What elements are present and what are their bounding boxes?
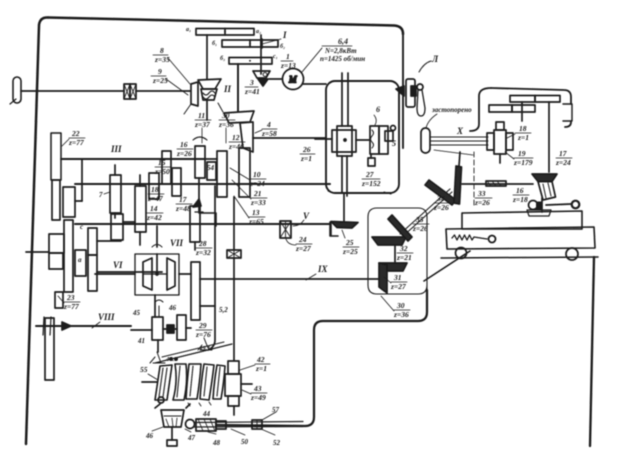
wire: vertical pulley shaft (237, 64, 239, 111)
rollers and bed line (441, 257, 598, 258)
svg-text:б₁: б₁ (212, 40, 217, 47)
svg-text:z=1: z=1 (255, 364, 267, 373)
bed right edge (590, 257, 594, 446)
labels (396, 244, 412, 262)
cone variator pair (191, 82, 198, 106)
svg-text:z=33: z=33 (250, 198, 266, 207)
svg-text:7: 7 (99, 191, 103, 199)
labels 34 35 (433, 194, 449, 212)
svg-text:z=76: z=76 (195, 330, 211, 339)
svg-text:z=26: z=26 (176, 149, 192, 158)
svg-text:III: III (110, 144, 122, 154)
svg-text:II: II (223, 84, 232, 94)
svg-text:18: 18 (519, 124, 527, 133)
svg-text:15: 15 (158, 158, 166, 167)
svg-text:16: 16 (516, 186, 524, 195)
svg-text:z=179: z=179 (513, 158, 533, 167)
motor M (283, 69, 304, 90)
svg-text:48: 48 (212, 439, 221, 447)
svg-text:26: 26 (302, 145, 311, 154)
bevel 32 bar (372, 237, 406, 245)
pulley bar b (222, 40, 278, 47)
svg-text:z=77: z=77 (63, 302, 79, 311)
lever over drum (155, 344, 232, 363)
label 9 z=25 (152, 67, 168, 85)
gear after diff (191, 262, 200, 320)
bevel 25 (330, 222, 338, 236)
worm block table (487, 133, 494, 150)
bottom labels (152, 427, 275, 435)
svg-text:z=152: z=152 (361, 179, 381, 188)
label 26 z=1 (300, 145, 312, 163)
svg-text:6: 6 (376, 105, 380, 114)
svg-text:z=25: z=25 (342, 247, 358, 256)
svg-text:10: 10 (253, 170, 261, 179)
svg-text:N=2,8кВт: N=2,8кВт (324, 47, 357, 55)
svg-text:17: 17 (559, 149, 567, 158)
label 24 z=27 (295, 235, 311, 253)
bevel pair table drive (532, 174, 557, 182)
svg-text:6,4: 6,4 (338, 37, 348, 46)
pulley bars right (510, 96, 535, 103)
svg-text:z=13: z=13 (280, 61, 296, 70)
wire: link to shaft V (199, 213, 216, 226)
svg-text:z=41: z=41 (244, 87, 260, 96)
svg-text:a₁: a₁ (186, 27, 191, 33)
svg-text:22: 22 (71, 129, 80, 138)
svg-text:34: 34 (436, 194, 445, 203)
svg-text:46: 46 (145, 432, 154, 440)
label 22 z=77 (68, 129, 84, 147)
svg-text:43: 43 (253, 384, 262, 393)
wire shaft III (61, 158, 204, 160)
svg-text:застопорено: застопорено (431, 106, 472, 114)
svg-text:57: 57 (272, 406, 280, 414)
label 19 z=179 (513, 149, 533, 167)
svg-text:z=26: z=26 (412, 224, 428, 233)
L-path linkage to cam (216, 290, 427, 426)
svg-text:21: 21 (253, 189, 262, 198)
shaft X double line (430, 137, 488, 145)
svg-text:z=46: z=46 (228, 142, 244, 151)
svg-text:z=48: z=48 (175, 204, 191, 213)
svg-text:28: 28 (198, 239, 207, 248)
svg-text:19: 19 (518, 149, 526, 158)
wire shaft IV (75, 183, 330, 185)
svg-text:47: 47 (187, 434, 196, 442)
svg-text:IX: IX (317, 264, 329, 274)
ratchet 24 on shaft V (280, 221, 291, 238)
svg-text:a: a (78, 256, 82, 264)
friction clutch 5 (370, 126, 379, 154)
wire (136, 90, 190, 92)
svg-text:5,2: 5,2 (219, 306, 228, 314)
svg-text:44: 44 (202, 410, 211, 418)
gears crossing shaft V (190, 206, 200, 242)
svg-text:VII: VII (170, 238, 184, 248)
shaft VI (97, 271, 162, 273)
svg-text:z=27: z=27 (390, 282, 406, 291)
wire: differential center shaft (156, 254, 158, 274)
svg-text:V: V (303, 211, 310, 221)
bevel 31 (379, 263, 407, 271)
wire: vertical to variator (206, 35, 208, 79)
pulley bar a1-a2 (196, 29, 254, 36)
label 25 z=25 (342, 238, 358, 256)
upper gearbox interior: vertical hob shaft (342, 73, 348, 126)
frame: left border (26, 17, 48, 444)
svg-text:31: 31 (393, 273, 402, 282)
shaft III gear 22 (51, 133, 61, 180)
svg-text:35: 35 (415, 215, 424, 224)
upper bevel chevron (425, 180, 456, 205)
svg-text:c₁: c₁ (273, 54, 278, 60)
label 36 z=18 (512, 186, 528, 204)
bevel cup bottom (161, 410, 184, 427)
label 18 z=1 (517, 124, 529, 142)
label 1 z=13 (280, 52, 296, 70)
svg-text:49.1: 49.1 (198, 345, 210, 352)
dash axis (473, 152, 475, 208)
svg-text:z=49: z=49 (250, 393, 266, 402)
table main (446, 227, 595, 249)
svg-text:55: 55 (140, 365, 148, 374)
svg-text:1: 1 (286, 52, 290, 61)
label 23 z=77 (63, 293, 79, 311)
svg-text:z=24: z=24 (555, 158, 571, 167)
wire: gearbox to bevel 25 (343, 193, 345, 222)
svg-text:18: 18 (151, 185, 159, 194)
svg-text:VI: VI (113, 260, 123, 270)
svg-text:z=25: z=25 (152, 76, 168, 85)
table upper slide (462, 211, 582, 229)
vertical feed shafts (208, 186, 215, 350)
svg-text:9: 9 (158, 67, 162, 76)
svg-text:n=1425 об/мин: n=1425 об/мин (320, 55, 365, 63)
svg-text:24: 24 (298, 235, 307, 244)
svg-text:M: M (288, 75, 297, 85)
label 27 z=152 (361, 170, 381, 188)
wire shaft IX (200, 278, 379, 280)
svg-text:z=1: z=1 (517, 133, 529, 142)
svg-text:z=35: z=35 (154, 55, 170, 64)
wire shaft V (75, 223, 330, 225)
svg-text:23: 23 (66, 293, 75, 302)
shaft VIII (36, 325, 131, 327)
svg-text:z=32: z=32 (195, 248, 211, 257)
svg-text:52: 52 (273, 439, 281, 447)
label 33 z=26 (474, 189, 490, 207)
svg-text:30: 30 (396, 301, 405, 310)
svg-text:Л: Л (431, 54, 439, 64)
label 3 z=43 (244, 78, 260, 96)
worm gear 42/43 (228, 361, 239, 374)
svg-text:13: 13 (252, 208, 260, 217)
svg-text:VIII: VIII (98, 312, 115, 322)
table jacks (541, 198, 543, 212)
svg-text:11: 11 (198, 111, 205, 120)
svg-text:z=58: z=58 (261, 129, 277, 138)
svg-text:б₃: б₃ (220, 55, 225, 62)
svg-text:z=50: z=50 (154, 167, 170, 176)
small gears below diff (152, 317, 163, 340)
bevel on motor shaft (253, 71, 270, 78)
motor text (320, 37, 365, 63)
svg-text:I: I (282, 30, 287, 40)
gearbox enclosure box (326, 81, 399, 193)
bevel pair 4 z=58 (224, 111, 254, 123)
svg-text:z=47: z=47 (147, 194, 163, 203)
svg-text:25: 25 (345, 238, 354, 247)
svg-text:27: 27 (365, 170, 374, 179)
svg-text:50: 50 (241, 438, 249, 446)
label 4 z=58 (261, 120, 277, 138)
right feed box (470, 88, 491, 131)
svg-text:z=26: z=26 (433, 203, 449, 212)
svg-text:4: 4 (266, 120, 271, 129)
frame: top border (48, 18, 403, 35)
svg-text:54: 54 (207, 164, 215, 172)
wire shaft II to gearbox (253, 137, 326, 139)
svg-text:16: 16 (180, 140, 188, 149)
svg-text:33: 33 (477, 189, 486, 198)
coupling reversing clutch (124, 84, 130, 99)
svg-text:14: 14 (150, 204, 158, 213)
differential (135, 254, 179, 295)
svg-text:12: 12 (232, 133, 240, 142)
rod linkage (194, 422, 303, 428)
labels center (194, 111, 210, 129)
svg-text:45: 45 (132, 309, 141, 317)
svg-text:41: 41 (137, 337, 145, 345)
svg-text:z=24: z=24 (249, 179, 265, 188)
left cluster gears (110, 175, 121, 213)
svg-text:z=42: z=42 (146, 213, 162, 222)
svg-text:32: 32 (399, 244, 408, 253)
svg-text:z=77: z=77 (68, 138, 84, 147)
diagonal telescopic shaft (400, 189, 452, 237)
tall gear bottom left (45, 318, 54, 380)
svg-text:5: 5 (392, 139, 396, 148)
svg-text:30: 30 (221, 111, 230, 120)
box around bevels 31/30 (368, 208, 427, 294)
svg-text:17: 17 (179, 195, 187, 204)
svg-text:z=18: z=18 (512, 195, 528, 204)
wire: input shaft I (21, 90, 124, 92)
wire: motor shaft vertical (260, 35, 262, 74)
svg-text:46: 46 (168, 304, 177, 312)
label 8 z=35 (154, 46, 170, 64)
pulley bar c (229, 58, 272, 65)
lever mechanism right of gearbox (406, 79, 415, 107)
spring detent (452, 235, 487, 240)
svg-text:z=26: z=26 (474, 198, 490, 207)
svg-text:8: 8 (160, 46, 164, 55)
svg-text:42: 42 (256, 355, 265, 364)
svg-text:29: 29 (198, 321, 207, 330)
svg-text:б₂: б₂ (280, 43, 285, 50)
handwheel left (13, 77, 21, 103)
gear 23 (55, 292, 63, 308)
label 29 z=76 (195, 321, 211, 339)
lower bevel chevron (388, 215, 412, 241)
svg-text:a₂: a₂ (256, 29, 261, 35)
svg-text:X: X (456, 126, 464, 136)
svg-text:z=1: z=1 (300, 154, 312, 163)
pawl pin (193, 199, 201, 207)
svg-text:44.1: 44.1 (165, 356, 177, 363)
frame: right stub (402, 34, 404, 148)
label 28 z=32 (195, 239, 211, 257)
center cluster gears shafts IV/V (162, 151, 171, 184)
handwheel X (421, 128, 430, 153)
label 17 z=24 (555, 149, 571, 167)
cam drum 55 (155, 364, 225, 400)
hob worm block (332, 130, 356, 152)
wire: gear 11 shaft down (198, 178, 200, 212)
svg-text:z=21: z=21 (396, 253, 412, 262)
wire: diagonal to table (424, 251, 470, 281)
svg-text:3: 3 (249, 78, 254, 87)
svg-text:z=27: z=27 (295, 244, 311, 253)
svg-text:z=36: z=36 (393, 310, 409, 319)
